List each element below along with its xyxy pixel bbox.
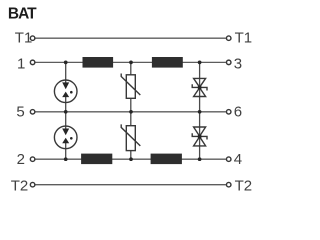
svg-text:T2: T2 — [11, 178, 29, 195]
svg-text:T1: T1 — [15, 30, 33, 47]
svg-text:1: 1 — [17, 56, 25, 73]
svg-text:5: 5 — [16, 104, 24, 121]
svg-text:6: 6 — [234, 104, 242, 121]
svg-text:2: 2 — [17, 151, 25, 168]
svg-text:3: 3 — [234, 56, 242, 73]
svg-text:T1: T1 — [235, 30, 253, 47]
svg-text:BAT: BAT — [8, 6, 37, 23]
svg-text:4: 4 — [234, 151, 242, 168]
svg-text:T2: T2 — [235, 178, 253, 195]
